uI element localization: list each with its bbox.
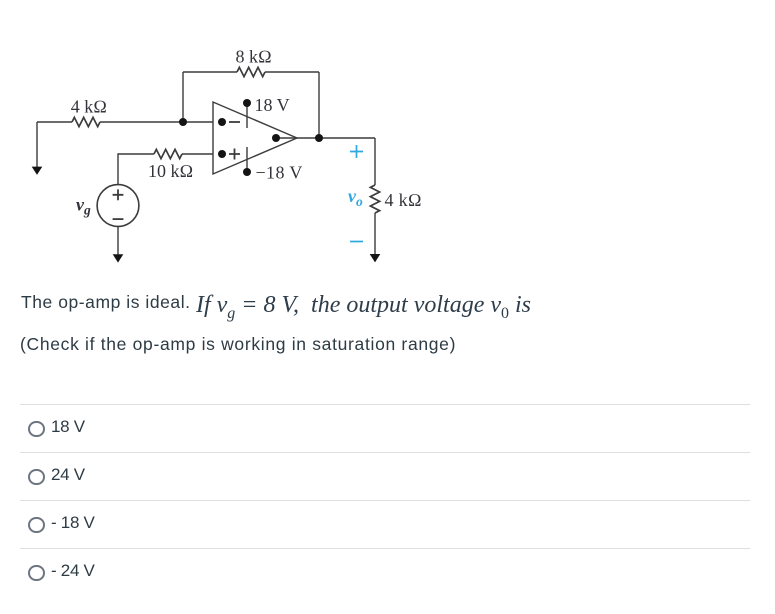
wire: feedback top rail right segment xyxy=(265,71,319,73)
svg-text:4 kΩ: 4 kΩ xyxy=(71,97,107,117)
wire: feedback left vertical from inverting-input node up to feedback rail xyxy=(182,72,184,122)
svg-text:vo: vo xyxy=(348,186,363,209)
wire: 10k resistor to op-amp noninverting input xyxy=(182,153,213,155)
vg polarity minus sign xyxy=(113,218,124,220)
output polarity minus (cyan) xyxy=(350,241,363,243)
svg-text:4 kΩ: 4 kΩ xyxy=(385,190,423,210)
wire: feedback right vertical down to output node xyxy=(318,72,320,138)
op-amp inverting input terminal dot xyxy=(218,118,226,126)
wire: left ground stem xyxy=(36,122,38,167)
vg polarity plus sign xyxy=(113,189,124,200)
op-amp minus input marker xyxy=(229,121,240,123)
svg-text:8 kΩ: 8 kΩ xyxy=(236,47,272,67)
wire: 4k resistor to op-amp inverting input xyxy=(100,121,213,123)
resistor R_f 8 kOhm (zigzag) xyxy=(237,67,265,76)
svg-text:18 V: 18 V xyxy=(255,95,290,115)
ground arrow below load xyxy=(370,254,381,262)
op-amp +supply terminal dot xyxy=(243,99,251,107)
wire: vg source top lead up to 10k branch xyxy=(118,154,154,184)
wire: load top vertical xyxy=(374,138,376,185)
op-amp positive supply stub xyxy=(246,103,248,128)
svg-text:vg: vg xyxy=(76,195,91,218)
resistor R1 4 kOhm (zigzag) xyxy=(72,117,100,126)
resistor R_L 4 kOhm load (vertical zigzag) xyxy=(370,185,379,213)
wire: vg source bottom lead to ground arrow xyxy=(117,226,119,254)
resistor R2 10 kOhm (zigzag) xyxy=(154,149,182,158)
wire: left input branch horizontal (ground arrow to 4k resistor) xyxy=(37,121,72,123)
wire: load bottom vertical to ground arrow xyxy=(374,213,376,254)
svg-text:10 kΩ: 10 kΩ xyxy=(148,161,193,181)
op-amp -supply terminal dot xyxy=(243,168,251,176)
op-amp plus input marker xyxy=(229,149,240,160)
wire: op-amp output stub from terminal dot to apex xyxy=(276,137,297,139)
op-amp noninverting input terminal dot xyxy=(218,150,226,158)
svg-text:−18 V: −18 V xyxy=(256,162,303,182)
ground arrow below vg xyxy=(113,254,124,262)
node: inverting input junction (feedback tap) xyxy=(179,118,187,126)
wire: op-amp output to load node xyxy=(297,137,375,139)
op-amp U1 triangle xyxy=(213,102,297,174)
op-amp output terminal dot xyxy=(272,134,280,142)
node: output junction xyxy=(315,134,323,142)
circuit schematic: inverting op-amp amplifier figure xyxy=(0,0,460,280)
output polarity plus (cyan) xyxy=(350,145,363,158)
wire: feedback top rail left segment xyxy=(183,71,237,73)
ground arrow left xyxy=(32,167,43,175)
voltage source vg circle xyxy=(97,185,139,227)
op-amp negative supply stub xyxy=(246,147,248,172)
